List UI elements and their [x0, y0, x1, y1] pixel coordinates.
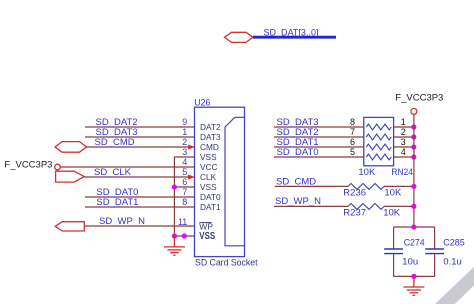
svg-text:4: 4: [182, 157, 187, 167]
svg-text:7: 7: [350, 127, 355, 137]
svg-text:SD_WP_N: SD_WP_N: [275, 196, 321, 207]
svg-text:7: 7: [182, 187, 187, 197]
svg-text:R236: R236: [343, 187, 366, 198]
svg-text:VSS: VSS: [200, 182, 217, 192]
port SD_CMD: [55, 142, 87, 153]
svg-text:SD_DAT1: SD_DAT1: [96, 197, 138, 208]
svg-text:3: 3: [401, 137, 406, 147]
pin arrow CLK: [188, 174, 194, 179]
svg-text:VSS: VSS: [199, 231, 215, 242]
svg-text:F_VCC3P3: F_VCC3P3: [395, 93, 443, 104]
svg-text:CLK: CLK: [200, 172, 217, 182]
svg-text:8: 8: [182, 197, 187, 207]
wire R236 to rail: [384, 185, 414, 187]
wire RN24 pin4: [394, 156, 414, 158]
resistor R237: [348, 204, 384, 210]
junction VSS bottom left: [172, 233, 177, 238]
svg-text:DAT2: DAT2: [200, 122, 221, 132]
wire SD_DAT0 right (pin 5): [274, 156, 364, 158]
wire VCC pin 4: [60, 166, 194, 168]
svg-text:C274: C274: [404, 237, 425, 248]
power symbol F_VCC3P3 right: [411, 108, 417, 114]
junction RN24 pin4: [411, 154, 416, 159]
svg-text:SD_CMD: SD_CMD: [276, 176, 316, 187]
resistor R236: [348, 184, 384, 190]
gray corner stripe: [435, 267, 474, 304]
wire SD_WP_N (pin 11): [84, 225, 194, 227]
svg-text:SD Card Socket: SD Card Socket: [195, 258, 258, 269]
junction bottom rail: [411, 274, 416, 279]
junction RN24 pin3: [411, 144, 416, 149]
junction VSS pin stub: [182, 233, 187, 238]
svg-text:10u: 10u: [402, 257, 418, 268]
op component U26 box: [195, 107, 245, 256]
svg-text:10K: 10K: [384, 187, 402, 198]
svg-text:1: 1: [401, 117, 406, 127]
wire F_VCC3P3 vertical rail: [413, 114, 415, 227]
wire SD_WP_N right: [274, 205, 348, 207]
wire C285 bottom lead: [434, 254, 436, 277]
capacitor C274: [384, 249, 403, 254]
U26 card outline: [225, 117, 245, 246]
svg-text:9: 9: [182, 117, 187, 127]
ground right: [403, 276, 424, 295]
junction R237 rail: [411, 204, 416, 209]
wire SD_DAT2 right (pin 7): [274, 136, 364, 138]
svg-text:4: 4: [401, 147, 406, 157]
svg-text:2: 2: [182, 137, 187, 147]
svg-text:1: 1: [182, 127, 187, 137]
svg-text:DAT0: DAT0: [200, 192, 221, 202]
wire RN24 pin2: [394, 136, 414, 138]
svg-text:2: 2: [401, 127, 406, 137]
wire SD_DAT0 (pin 7): [85, 196, 195, 198]
ground left: [164, 236, 185, 255]
svg-text:6: 6: [350, 137, 355, 147]
junction VSS pin6: [172, 184, 177, 189]
svg-text:SD_WP_N: SD_WP_N: [99, 216, 145, 227]
bus SD_DAT[3..0]: [253, 36, 336, 39]
svg-text:8: 8: [350, 117, 355, 127]
wire SD_CMD right: [275, 185, 348, 187]
svg-text:SD_DAT[3..0]: SD_DAT[3..0]: [264, 27, 319, 38]
resistor element RN24-A: [366, 124, 391, 130]
wire SD_DAT1 (pin 8): [85, 206, 195, 208]
svg-text:R237: R237: [343, 207, 366, 218]
resistor element RN24-D: [366, 154, 391, 160]
wire SD_DAT3 (pin 1): [85, 136, 195, 138]
wire VSS bottom pin: [174, 235, 194, 237]
svg-text:SD_DAT0: SD_DAT0: [277, 147, 319, 158]
capacitor C285: [425, 249, 444, 254]
resistor element RN24-B: [366, 134, 391, 140]
svg-text:VCC: VCC: [200, 162, 218, 172]
svg-text:10K: 10K: [358, 167, 376, 178]
wire RN24 pin3: [394, 146, 414, 148]
svg-text:F_VCC3P3: F_VCC3P3: [4, 160, 52, 171]
wire SD_CMD (pin 2): [87, 146, 195, 148]
svg-text:DAT3: DAT3: [200, 132, 221, 142]
svg-text:VSS: VSS: [200, 152, 217, 162]
wire capacitor bottom rail: [394, 275, 435, 277]
wire RN24 pin1: [394, 126, 414, 128]
resistor network RN24 box: [364, 117, 394, 165]
wire C274 top lead: [393, 227, 395, 249]
svg-text:5: 5: [182, 167, 187, 177]
wire SD_DAT1 right (pin 6): [274, 146, 364, 148]
svg-text:U26: U26: [194, 98, 210, 109]
svg-text:3: 3: [182, 147, 187, 157]
resistor element RN24-C: [366, 144, 391, 150]
junction RN24 pin2: [411, 134, 416, 139]
port SD_CLK: [56, 171, 85, 182]
port SD_WP_N: [55, 222, 84, 231]
wire SD_CLK (pin 5): [84, 176, 194, 178]
svg-text:0.1u: 0.1u: [443, 257, 462, 268]
wire VSS pin 6: [174, 186, 194, 188]
wire C274 bottom lead: [393, 254, 395, 277]
junction top rail: [411, 224, 416, 229]
wire VSS pin 3: [174, 156, 194, 158]
junction R236 rail: [411, 184, 416, 189]
power symbol F_VCC3P3 left: [55, 164, 61, 170]
wire C285 top lead: [434, 227, 436, 249]
svg-text:6: 6: [182, 177, 187, 187]
pin arrow CMD: [188, 144, 194, 149]
junction RN24 pin1: [411, 124, 416, 129]
svg-text:10K: 10K: [383, 207, 401, 218]
port SD_DAT[3..0]: [225, 32, 254, 42]
svg-text:11: 11: [178, 217, 187, 227]
wire R237 to rail: [384, 205, 414, 207]
svg-text:SD_CMD: SD_CMD: [95, 137, 135, 148]
svg-text:SD_CLK: SD_CLK: [94, 167, 132, 178]
svg-text:RN24: RN24: [391, 167, 413, 178]
svg-text:C285: C285: [443, 237, 465, 248]
svg-text:DAT1: DAT1: [200, 202, 221, 212]
overline WP: [199, 222, 211, 224]
svg-text:5: 5: [350, 147, 355, 157]
wire capacitor top rail: [394, 226, 435, 228]
wire SD_DAT2 (pin 9): [85, 126, 195, 128]
svg-text:CMD: CMD: [200, 142, 219, 152]
wire VSS vertical bus: [173, 157, 175, 237]
wire SD_DAT3 right (pin 8): [274, 126, 364, 128]
